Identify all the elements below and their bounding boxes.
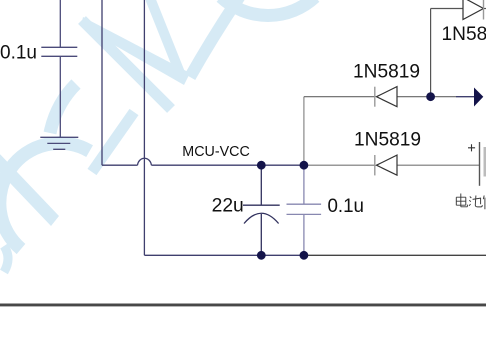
svg-text:0.1u: 0.1u [0,42,37,64]
svg-text:1N5819: 1N5819 [442,23,486,45]
svg-text:1N5819: 1N5819 [354,129,421,151]
svg-text:0.1u: 0.1u [328,195,365,217]
svg-text:MCU-VCC: MCU-VCC [182,143,250,160]
svg-text:22u: 22u [212,194,244,216]
svg-text:1N5819: 1N5819 [353,61,420,83]
